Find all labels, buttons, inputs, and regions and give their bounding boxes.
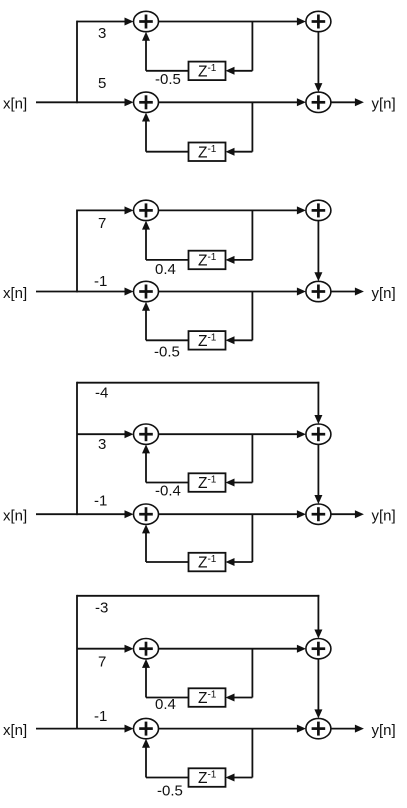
wire: main line into adder A3 (diagram 1 row 2) xyxy=(77,98,134,106)
svg-text:-1: -1 xyxy=(94,708,107,725)
wire: main line into adder A3 (diagram 3 bottom row) xyxy=(77,510,134,518)
wire: branch vertical at x=77 (diagram 1) xyxy=(76,21,78,104)
svg-text:x[n]: x[n] xyxy=(3,96,27,113)
wire: branch vertical at x=77 (diagram 4) xyxy=(76,595,78,730)
svg-text:x[n]: x[n] xyxy=(3,507,27,524)
adder A4 (diagram 3 bottom row) xyxy=(306,504,331,524)
wire: adder A2 down into adder A4 (diagram 1) xyxy=(314,32,322,92)
svg-text:7: 7 xyxy=(98,215,106,232)
delay block Z^-1 (diagram 3 bottom row) xyxy=(189,553,226,572)
adder A3 (diagram 4 bottom row) xyxy=(134,718,159,738)
wire: branch vertical at x=77 (diagram 2) xyxy=(76,210,78,293)
wire: into delay right side with arrow (diagram 4 middle row) xyxy=(226,694,253,702)
adder A4 (diagram 1 row 2) xyxy=(306,92,331,112)
adder A3 (diagram 1 row 2) xyxy=(134,92,159,112)
wire: adder A1 output to adder A2 (diagram 2) xyxy=(159,206,306,214)
svg-text:-0.4: -0.4 xyxy=(155,483,181,500)
adder A2 (diagram 3 middle row) xyxy=(306,424,331,444)
delay block Z^-1 (diagram 1 row 2) xyxy=(189,143,226,162)
wire: output to y[n] (diagram 2) xyxy=(331,288,364,296)
wire: output to y[n] (diagram 3) xyxy=(331,510,364,518)
wire: adder A3 output to adder A4 (diagram 3) xyxy=(159,510,306,518)
wire: output to y[n] (diagram 4) xyxy=(331,725,364,733)
wire: x[n] input line (diagram 2) xyxy=(36,291,77,293)
delay block Z^-1 (diagram 1 row 1) xyxy=(189,62,226,81)
wire: delay output back up into adder (diagram 4 bottom row) xyxy=(142,739,189,778)
wire: bypass path to top-right adder (diagram 3) xyxy=(77,382,322,424)
svg-text:x[n]: x[n] xyxy=(3,722,27,739)
wire: feedback tap down from output line (diagram 4 bottom row) xyxy=(251,729,253,778)
svg-text:-0.5: -0.5 xyxy=(154,344,180,361)
wire: delay output back up into adder (diagram 1 row 1) xyxy=(142,32,189,71)
delay block Z^-1 (diagram 4 middle row) xyxy=(189,688,226,707)
svg-text:-4: -4 xyxy=(95,385,108,402)
svg-text:-3: -3 xyxy=(95,600,108,617)
wire: adder A3 output to adder A4 (diagram 4) xyxy=(159,725,306,733)
adder A2 (diagram 4 middle row) xyxy=(306,639,331,659)
wire: feedback tap down from output line (diagram 3 middle row) xyxy=(251,434,253,482)
wire: delay output back up into adder (diagram 2 row 1) xyxy=(142,221,189,260)
svg-text:7: 7 xyxy=(98,654,106,671)
wire: feedback tap down from output line (diagram 2 row 1) xyxy=(251,210,253,260)
wire: delay output back up into adder (diagram 4 middle row) xyxy=(142,659,189,698)
adder A3 (diagram 2 row 2) xyxy=(134,281,159,301)
wire: output to y[n] (diagram 1) xyxy=(331,98,364,106)
wire: branch into adder A1 (diagram 2 row 1) xyxy=(77,206,134,214)
wire: delay output back up into adder (diagram 3 bottom row) xyxy=(142,524,189,562)
svg-text:-1: -1 xyxy=(94,273,107,290)
wire: into delay right side with arrow (diagram 2 row 2) xyxy=(226,336,253,344)
wire: into delay right side with arrow (diagram 1 row 2) xyxy=(226,148,253,156)
wire: branch into adder A1 (diagram 3 middle row) xyxy=(77,430,134,438)
svg-text:y[n]: y[n] xyxy=(372,96,396,113)
wire: branch vertical at x=77 (diagram 3) xyxy=(76,382,78,515)
svg-text:-1: -1 xyxy=(94,493,107,510)
wire: bypass path to top-right adder (diagram 4) xyxy=(77,595,322,639)
adder A1 (diagram 1 row 1) xyxy=(134,11,159,31)
svg-text:-0.5: -0.5 xyxy=(155,71,181,88)
wire: feedback tap down from output line (diagram 3 bottom row) xyxy=(251,514,253,562)
wire: feedback tap down from output line (diagram 1 row 1) xyxy=(251,22,253,71)
adder A1 (diagram 4 middle row) xyxy=(134,639,159,659)
wire: adder A3 output to adder A4 (diagram 1) xyxy=(159,98,306,106)
wire: adder A2 down into adder A4 (diagram 2) xyxy=(314,221,322,282)
wire: into delay right side with arrow (diagram 4 bottom row) xyxy=(226,774,253,782)
wire: delay output back up into adder (diagram 1 row 2) xyxy=(142,113,189,152)
adder A2 (diagram 1 row 1) xyxy=(306,11,331,31)
wire: feedback tap down from output line (diagram 4 middle row) xyxy=(251,649,253,698)
delay block Z^-1 (diagram 2 row 2) xyxy=(189,331,226,350)
svg-text:y[n]: y[n] xyxy=(372,507,396,524)
adder A4 (diagram 2 row 2) xyxy=(306,281,331,301)
wire: into delay right side with arrow (diagram 3 middle row) xyxy=(226,479,253,487)
wire: main line into adder A3 (diagram 4 bottom row) xyxy=(77,725,134,733)
wire: adder A2 down into adder A4 (diagram 3) xyxy=(314,444,322,504)
wire: adder A1 output to adder A2 (diagram 4) xyxy=(159,645,306,653)
wire: delay output back up into adder (diagram 2 row 2) xyxy=(142,302,189,341)
svg-text:0.4: 0.4 xyxy=(155,261,176,278)
wire: adder A1 output to adder A2 (diagram 1) xyxy=(159,18,306,26)
adder A3 (diagram 3 bottom row) xyxy=(134,504,159,524)
wire: adder A3 output to adder A4 (diagram 2) xyxy=(159,288,306,296)
delay block Z^-1 (diagram 2 row 1) xyxy=(189,251,226,270)
adder A4 (diagram 4 bottom row) xyxy=(306,718,331,738)
wire: delay output back up into adder (diagram 3 middle row) xyxy=(142,444,189,482)
adder A2 (diagram 2 row 1) xyxy=(306,200,331,220)
wire: branch into adder A1 (diagram 4 middle row) xyxy=(77,645,134,653)
svg-text:3: 3 xyxy=(98,25,106,42)
wire: x[n] input line (diagram 4) xyxy=(36,728,77,730)
svg-text:5: 5 xyxy=(98,75,106,92)
wire: main line into adder A3 (diagram 2 row 2) xyxy=(77,288,134,296)
delay block Z^-1 (diagram 4 bottom row) xyxy=(189,768,226,787)
wire: adder A2 down into adder A4 (diagram 4) xyxy=(314,659,322,719)
adder A1 (diagram 3 middle row) xyxy=(134,424,159,444)
svg-text:0.4: 0.4 xyxy=(155,696,176,713)
wire: into delay right side with arrow (diagram 3 bottom row) xyxy=(226,558,253,566)
wire: x[n] input line (diagram 3) xyxy=(36,513,77,515)
delay block Z^-1 (diagram 3 middle row) xyxy=(189,473,226,492)
wire: adder A1 output to adder A2 (diagram 3) xyxy=(159,430,306,438)
svg-text:3: 3 xyxy=(98,436,106,453)
wire: feedback tap down from output line (diagram 2 row 2) xyxy=(251,292,253,341)
wire: into delay right side with arrow (diagram 1 row 1) xyxy=(226,67,253,75)
svg-text:y[n]: y[n] xyxy=(372,722,396,739)
adder A1 (diagram 2 row 1) xyxy=(134,200,159,220)
wire: into delay right side with arrow (diagram 2 row 1) xyxy=(226,256,253,264)
svg-text:y[n]: y[n] xyxy=(372,285,396,302)
svg-text:x[n]: x[n] xyxy=(3,285,27,302)
wire: branch into adder A1 (diagram 1 row 1) xyxy=(77,18,134,26)
wire: x[n] input line (diagram 1) xyxy=(36,101,77,103)
wire: feedback tap down from output line (diagram 1 row 2) xyxy=(251,102,253,151)
svg-text:-0.5: -0.5 xyxy=(157,783,183,800)
